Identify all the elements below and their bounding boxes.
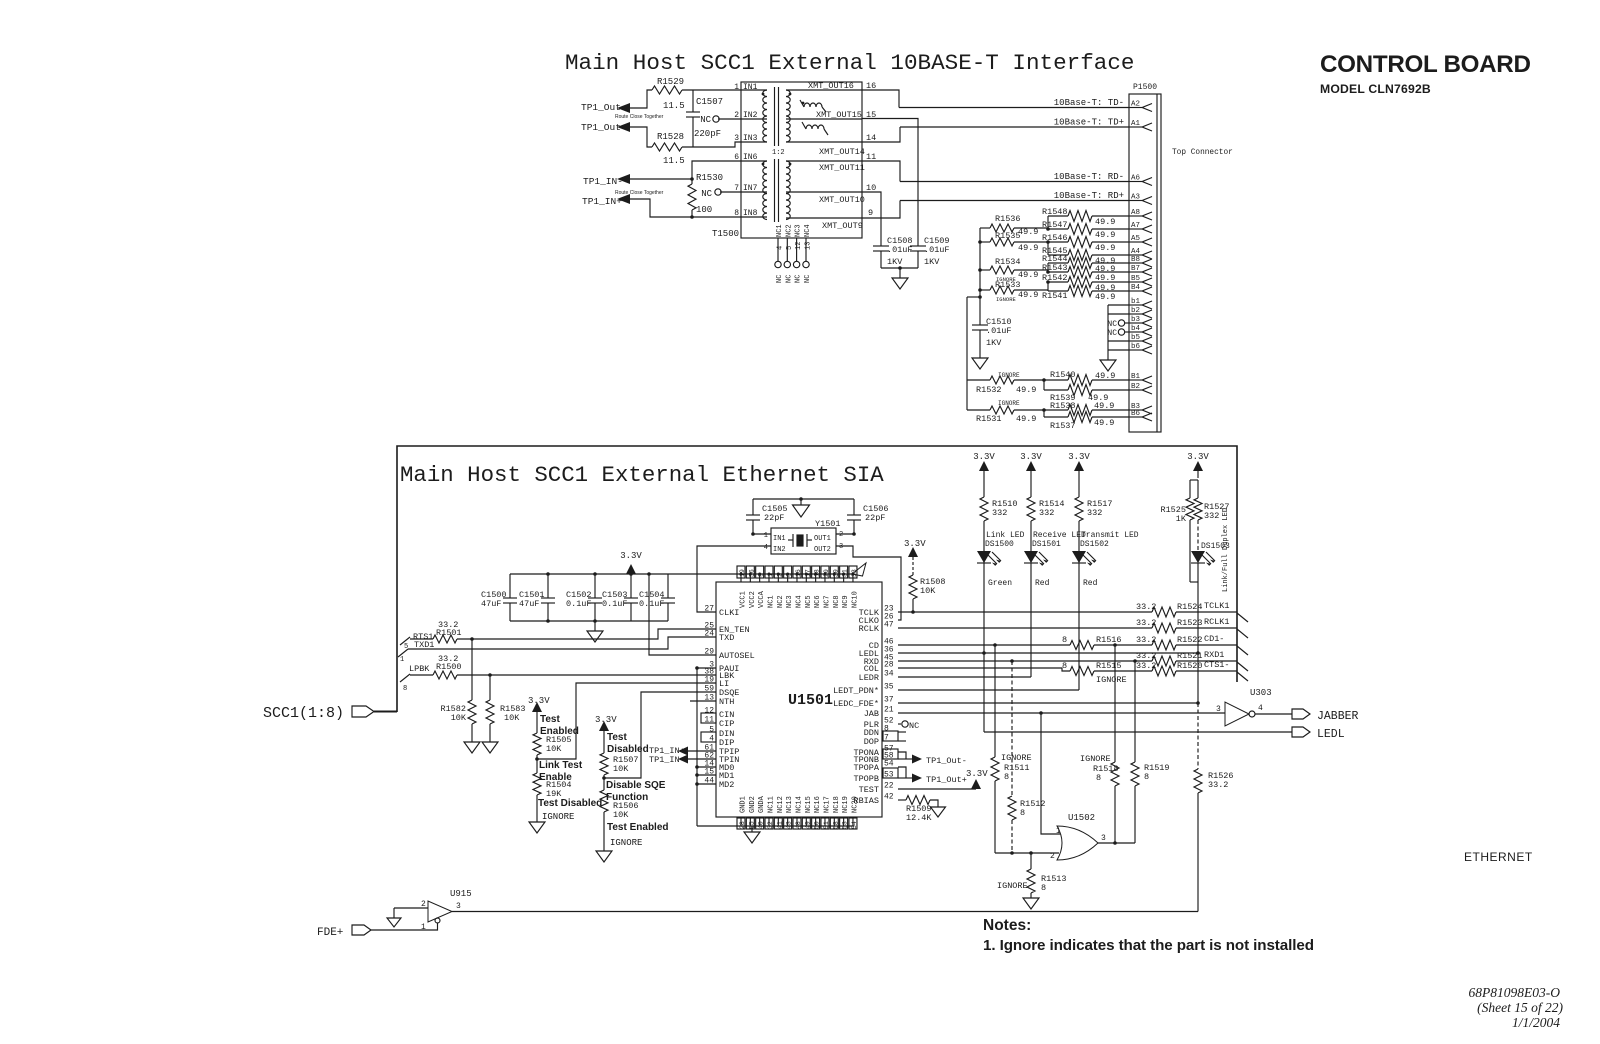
resistor R1522: [1152, 640, 1176, 650]
svg-text:Link Test: Link Test: [539, 760, 583, 771]
junction dot R1530 top: [690, 177, 694, 181]
U1501 bottom pin 43 NC13: [787, 817, 789, 826]
svg-text:3: 3: [456, 902, 461, 911]
junction dot LEDC_FDE/R1526: [1196, 701, 1200, 705]
svg-text:1: 1: [734, 83, 739, 92]
T1500 core lines lower: [774, 159, 776, 222]
svg-text:R1546: R1546: [1042, 233, 1068, 243]
svg-text:IGNORE: IGNORE: [998, 400, 1020, 407]
resistor R1508: [909, 575, 917, 599]
U1501 top pin 19 VCC1: [740, 574, 742, 582]
svg-text:Main Host SCC1 External Ethern: Main Host SCC1 External Ethernet SIA: [400, 462, 884, 488]
wire bracket A5/A4: [1047, 242, 1049, 255]
svg-text:NC10: NC10: [851, 591, 859, 608]
svg-text:28: 28: [739, 821, 746, 829]
svg-text:NC: NC: [1107, 329, 1117, 338]
svg-text:49.9: 49.9: [1018, 290, 1038, 300]
U1501 bottom pin 54 NC20: [852, 817, 854, 826]
wire 3.3V rail (top): [510, 573, 852, 575]
U1501 bottom pin 58 NC18: [833, 817, 835, 826]
svg-text:IN2: IN2: [773, 546, 786, 554]
svg-text:5: 5: [709, 726, 714, 735]
svg-text:1: 1: [1056, 827, 1061, 836]
wire R1548 to A8: [1092, 215, 1129, 217]
resistor R1527: [1194, 498, 1202, 520]
svg-text:TP1_IN-: TP1_IN-: [649, 755, 685, 765]
svg-text:NC20: NC20: [851, 796, 859, 813]
wire lower termination rail: [967, 296, 980, 298]
svg-text:R1501: R1501: [436, 628, 462, 638]
svg-text:3.3V: 3.3V: [1020, 452, 1042, 462]
resistor R1510: [980, 497, 988, 521]
svg-text:NC11: NC11: [767, 796, 775, 813]
junction dot B5 bracket: [1046, 280, 1050, 284]
wire R1543 to B7: [1092, 271, 1129, 273]
svg-text:3.3V: 3.3V: [595, 715, 617, 725]
svg-text:1KV: 1KV: [924, 257, 940, 267]
svg-text:C1507: C1507: [696, 97, 723, 107]
resistor R1547: [1048, 228, 1068, 230]
wire T1500 pin7 NC stub: [720, 191, 741, 193]
svg-text:SCC1(1:8): SCC1(1:8): [263, 705, 344, 722]
ground (R1583): [482, 742, 498, 753]
svg-text:NC12: NC12: [777, 796, 785, 813]
U1501 top pin 16 NC4: [796, 574, 798, 582]
ground (R1513): [1023, 898, 1039, 909]
ground (U1501): [751, 826, 753, 832]
wire OUT14 internal: [786, 141, 862, 143]
svg-text:(Sheet 15 of 22): (Sheet 15 of 22): [1477, 1000, 1563, 1015]
svg-text:U1501: U1501: [788, 692, 833, 709]
svg-text:R1547: R1547: [1042, 220, 1068, 230]
svg-text:Test Enabled: Test Enabled: [607, 822, 669, 833]
svg-text:8: 8: [734, 209, 739, 218]
svg-text:49.9: 49.9: [1095, 230, 1115, 240]
wire termination rail upper: [979, 228, 981, 325]
wire COL net: [898, 668, 1070, 671]
svg-text:33.2: 33.2: [1136, 618, 1156, 628]
svg-text:332: 332: [1039, 508, 1054, 518]
wire U1502 output: [1098, 842, 1135, 844]
svg-text:11.5: 11.5: [663, 156, 685, 166]
svg-text:3.3V: 3.3V: [973, 452, 995, 462]
svg-text:R1536: R1536: [995, 214, 1021, 224]
wire R1539 to B2: [1092, 389, 1129, 391]
capacitor C1504: [667, 574, 669, 598]
svg-text:3: 3: [1216, 705, 1221, 714]
svg-text:TP1_IN-: TP1_IN-: [583, 176, 623, 187]
svg-text:NC17: NC17: [823, 796, 831, 813]
wire T1500 pin9 to RD+ net: [862, 201, 900, 219]
svg-text:AUTOSEL: AUTOSEL: [719, 651, 755, 661]
resistor R1530: [691, 179, 693, 184]
wire OUT15 internal: [786, 118, 862, 120]
wire Y1501 OUT2 to CLKO: [836, 546, 901, 620]
svg-text:53: 53: [842, 821, 849, 829]
svg-text:R1548: R1548: [1042, 207, 1068, 217]
svg-text:54: 54: [884, 760, 894, 769]
wire TPOPB to TP1_Out+: [898, 777, 913, 779]
svg-text:NTH: NTH: [719, 697, 734, 707]
wire TXD1 to TXD: [408, 637, 716, 649]
wire link test enable to LI: [537, 683, 716, 759]
svg-text:4: 4: [764, 544, 768, 552]
wire DOP stub: [898, 740, 906, 742]
svg-text:R1535: R1535: [995, 231, 1021, 241]
junction dot R1530 bottom: [690, 215, 694, 219]
svg-text:NC7: NC7: [823, 595, 831, 608]
wire LEDL output run: [984, 731, 1292, 733]
resistor R1525: [1186, 498, 1194, 520]
junction dot R1518 bottom: [1113, 841, 1117, 845]
junction dot JAB/U1502: [1039, 711, 1043, 715]
svg-text:NC2: NC2: [777, 595, 785, 608]
wire R1528 to T1500 pin3: [682, 142, 741, 147]
gate U303 inverter: [1225, 702, 1249, 726]
svg-text:Test: Test: [540, 714, 560, 725]
svg-text:TXD: TXD: [719, 633, 734, 643]
svg-text:50: 50: [814, 821, 821, 829]
svg-text:42: 42: [884, 793, 894, 802]
U1501 bottom pin 40 GNDA: [759, 817, 761, 826]
U1501 top pin 6 NC3: [787, 574, 789, 582]
power 3.3V (bypass rail): [626, 564, 636, 574]
svg-text:DOP: DOP: [864, 737, 879, 747]
svg-text:NC: NC: [701, 189, 712, 199]
junction dot B1 bracket: [1042, 378, 1046, 382]
svg-text:NC15: NC15: [805, 796, 813, 813]
svg-text:U303: U303: [1250, 688, 1272, 698]
LED DS1503: [1191, 551, 1205, 563]
resistor R1515: [1070, 667, 1094, 676]
node TP1_Out+ arrow: [617, 122, 630, 132]
svg-text:1. Ignore indicates that the p: 1. Ignore indicates that the part is not…: [983, 937, 1314, 954]
wire R1500 to LBK: [457, 674, 716, 676]
wire R1529 to T1500 pin1: [682, 89, 741, 91]
capacitor C1508: [873, 245, 889, 247]
wire T1500 pin10 to C1508: [862, 192, 881, 246]
svg-text:34: 34: [884, 670, 894, 679]
T1500 link coil XMT_OUT14: [806, 125, 824, 129]
svg-text:Red: Red: [1083, 579, 1098, 588]
svg-text:IGNORE: IGNORE: [1080, 754, 1111, 764]
svg-text:TCLK1: TCLK1: [1204, 601, 1230, 611]
net RCLK1 exit tick: [1237, 629, 1248, 638]
wire bracket B3/B6: [1043, 410, 1045, 417]
svg-text:NC1: NC1: [776, 224, 784, 237]
ground (bypass rail): [594, 621, 596, 631]
wire crystal top rail: [753, 498, 854, 500]
svg-text:0.1uF: 0.1uF: [566, 599, 592, 609]
wire R1534 to bracket: [1014, 269, 1048, 271]
svg-text:35: 35: [884, 683, 894, 692]
wire AUTOSEL to 3.3V rail: [649, 574, 716, 655]
node TP1_Out- arrow (SIA): [912, 755, 922, 764]
wire DS1502 cathode down: [1078, 560, 1080, 690]
svg-text:3: 3: [1101, 834, 1106, 843]
svg-text:IN6: IN6: [743, 153, 758, 162]
resistor R1512: [1011, 661, 1013, 796]
svg-text:MD2: MD2: [719, 780, 734, 790]
svg-text:RCLK: RCLK: [859, 624, 880, 634]
wire NTH stub: [690, 700, 716, 702]
svg-text:1:2: 1:2: [772, 149, 785, 157]
junction dots U1501 left rail: [695, 666, 699, 670]
wire R1532 to bracket: [1014, 379, 1044, 381]
wire 10Base-T TD- net: [899, 107, 1129, 109]
svg-text:Route Close Together: Route Close Together: [615, 190, 664, 196]
wire IN1 internal: [741, 89, 767, 91]
U1501 bottom pin 49 NC15: [805, 817, 807, 826]
junction dot R1519/RXD: [1133, 659, 1137, 663]
wire R1508 to TCLK: [912, 599, 914, 612]
svg-text:3: 3: [734, 134, 739, 143]
wire LEDL net: [898, 652, 1198, 654]
svg-text:43: 43: [786, 821, 793, 829]
svg-text:33.2: 33.2: [1136, 651, 1156, 661]
wire TPOPA bracket: [898, 767, 906, 778]
U1501 bottom pin 50 NC16: [815, 817, 817, 826]
svg-text:33.2: 33.2: [1136, 635, 1156, 645]
svg-text:VCC2: VCC2: [749, 591, 757, 608]
svg-text:NC13: NC13: [786, 796, 794, 813]
wire R1540 to B1: [1092, 379, 1129, 381]
svg-text:NC: NC: [804, 275, 812, 283]
svg-text:LEDT_PDN*: LEDT_PDN*: [833, 686, 879, 696]
svg-text:NC19: NC19: [842, 796, 850, 813]
svg-text:NC: NC: [776, 275, 784, 283]
svg-text:8: 8: [1004, 772, 1009, 782]
wire R1546 to A5: [1092, 241, 1129, 243]
svg-text:59: 59: [704, 685, 714, 694]
T1500 link coil XMT_OUT15: [804, 103, 822, 107]
wire R1525/R1527 join bottom: [1190, 581, 1198, 583]
svg-text:IGNORE: IGNORE: [542, 812, 574, 822]
svg-text:NC6: NC6: [814, 595, 822, 608]
svg-text:3.3V: 3.3V: [1068, 452, 1090, 462]
wire OUT11 internal: [786, 160, 862, 162]
resistor R1511: [994, 645, 996, 757]
svg-text:48: 48: [795, 821, 802, 829]
capacitor C1501: [547, 574, 549, 598]
svg-text:TP1_IN+: TP1_IN+: [582, 196, 622, 207]
svg-text:U1502: U1502: [1068, 813, 1095, 823]
svg-text:CD1-: CD1-: [1204, 634, 1224, 644]
svg-text:51: 51: [823, 821, 830, 829]
svg-text:3.3V: 3.3V: [528, 696, 550, 706]
wire TP1_Out- to R1529: [630, 90, 652, 108]
svg-text:P1500: P1500: [1133, 83, 1157, 92]
svg-text:NC: NC: [785, 275, 793, 283]
svg-text:IN1: IN1: [743, 83, 758, 92]
svg-text:Route Close Together: Route Close Together: [615, 114, 664, 120]
wire 10Base-T RD+ net: [900, 200, 1129, 202]
svg-text:1/1/2004: 1/1/2004: [1512, 1015, 1560, 1030]
resistor R1544: [1048, 262, 1068, 264]
svg-text:XMT_OUT11: XMT_OUT11: [819, 163, 865, 173]
wire OUT9 internal: [786, 217, 862, 219]
svg-text:ETHERNET: ETHERNET: [1464, 850, 1533, 864]
wire OUT16 internal: [786, 89, 862, 91]
svg-text:NC9: NC9: [842, 595, 850, 608]
U1501 bottom pin 32 NC11: [768, 817, 770, 826]
wire R1537 to B6: [1092, 416, 1129, 418]
svg-text:8: 8: [1062, 635, 1067, 645]
LED DS1502: [1072, 551, 1086, 563]
svg-text:Green: Green: [988, 579, 1012, 588]
resistor R1541: [1068, 286, 1092, 297]
svg-text:R1500: R1500: [436, 662, 462, 672]
resistor R1582: [471, 639, 473, 700]
resistor R1524: [1152, 607, 1176, 617]
capacitor C1509: [910, 245, 926, 247]
svg-text:8: 8: [1096, 773, 1101, 783]
wire R1536 to bracket: [1014, 227, 1048, 229]
svg-text:47: 47: [884, 621, 894, 630]
junction dot A7 bracket: [1046, 227, 1050, 231]
svg-text:CLKI: CLKI: [719, 608, 739, 618]
wire R1531 to bracket: [1014, 409, 1044, 411]
svg-text:10Base-T: RD+: 10Base-T: RD+: [1054, 191, 1124, 201]
svg-text:9: 9: [868, 208, 873, 218]
U1501 top pin 30 NC8: [833, 574, 835, 582]
svg-text:NC1: NC1: [767, 595, 775, 608]
wire R1509 to ground: [930, 800, 938, 807]
svg-text:IGNORE: IGNORE: [610, 838, 642, 848]
svg-text:LEDL: LEDL: [1317, 728, 1345, 741]
svg-text:10Base-T: RD-: 10Base-T: RD-: [1054, 172, 1124, 182]
junction dot R1511/CD: [993, 643, 997, 647]
wire T1500 pin15 to C1509: [862, 119, 918, 247]
svg-text:8: 8: [403, 685, 407, 693]
svg-text:R1529: R1529: [657, 77, 684, 87]
svg-text:R1523: R1523: [1177, 618, 1203, 628]
svg-text:NC5: NC5: [805, 595, 813, 608]
resistor R1504: [533, 773, 541, 795]
wire DDN stub: [898, 731, 906, 733]
wire TEST to 3.3V: [898, 788, 976, 790]
resistor R1528: [652, 143, 682, 151]
svg-text:10K: 10K: [920, 586, 936, 596]
ground (R1509): [931, 807, 946, 817]
svg-text:49.9: 49.9: [1018, 243, 1038, 253]
svg-text:21: 21: [884, 706, 894, 715]
svg-text:49.9: 49.9: [1094, 418, 1114, 428]
resistor R1500: [410, 674, 433, 676]
bus tap RTS1: [400, 637, 410, 645]
svg-text:22: 22: [884, 782, 894, 791]
resistor R1520: [1152, 666, 1176, 676]
svg-text:NC: NC: [795, 275, 803, 283]
wire JAB to U1502 input1: [1041, 713, 1062, 834]
wire OUT10 internal: [786, 191, 862, 193]
wire rail NC arrow end: [852, 563, 866, 576]
svg-text:R1530: R1530: [696, 173, 723, 183]
svg-text:8: 8: [1020, 808, 1025, 818]
svg-text:R1521: R1521: [1177, 651, 1203, 661]
svg-text:XMT_OUT14: XMT_OUT14: [819, 147, 865, 157]
bus tap LPBK: [400, 674, 410, 682]
svg-text:IN2: IN2: [743, 111, 758, 120]
svg-text:TPOPB: TPOPB: [853, 774, 879, 784]
bus tap TXD1: [398, 649, 408, 657]
svg-text:Link LED: Link LED: [986, 531, 1025, 540]
svg-text:OUT1: OUT1: [814, 535, 831, 543]
net CTS1- exit tick: [1237, 672, 1248, 681]
svg-text:49.9: 49.9: [1016, 385, 1036, 395]
svg-text:49.9: 49.9: [1095, 217, 1115, 227]
wire RBIAS: [898, 799, 906, 801]
wire TP1_IN- to T1500 pin6: [630, 161, 741, 179]
resistor R1533: [980, 289, 990, 291]
svg-text:IGNORE: IGNORE: [997, 881, 1028, 891]
svg-text:IN1: IN1: [773, 535, 786, 543]
svg-text:IN7: IN7: [743, 184, 758, 193]
wire Y1501 IN2 to CLKI: [697, 546, 771, 612]
wire R1541 to B4: [1047, 290, 1049, 291]
svg-text:DS1500: DS1500: [985, 540, 1014, 549]
svg-text:OUT2: OUT2: [814, 546, 831, 554]
net CD1- exit tick: [1237, 646, 1248, 655]
svg-text:1KV: 1KV: [986, 338, 1002, 348]
wire R1517 to LED: [1078, 521, 1080, 551]
connector P1500 body: [1129, 94, 1161, 432]
resistor R1545: [1068, 250, 1092, 261]
svg-text:TPOPA: TPOPA: [853, 763, 879, 773]
node TP1_IN- arrow: [617, 174, 630, 184]
svg-text:49.9: 49.9: [1095, 292, 1115, 302]
svg-text:NC3: NC3: [795, 224, 803, 237]
U1501 bottom pin 48 NC14: [796, 817, 798, 826]
svg-text:CTS1-: CTS1-: [1204, 660, 1230, 670]
svg-text:10K: 10K: [504, 713, 520, 723]
svg-text:68P81098E03-O: 68P81098E03-O: [1469, 985, 1561, 1000]
U1501 top pin 18 NC6: [815, 574, 817, 582]
svg-text:NC8: NC8: [833, 595, 841, 608]
resistor R1531: [967, 409, 990, 411]
wire U1501 left GND rail: [696, 668, 698, 826]
wire bracket B8/B7: [1047, 263, 1049, 272]
wire U303 out to JABBER: [1255, 713, 1292, 715]
U1501 top pin 1 NC1: [768, 574, 770, 582]
svg-text:IN8: IN8: [743, 209, 758, 218]
resistor R1523: [1152, 623, 1176, 633]
svg-text:R1520: R1520: [1177, 661, 1203, 671]
svg-text:LEDC_FDE*: LEDC_FDE*: [833, 699, 879, 709]
junction dot R1582 top: [470, 637, 474, 641]
wire LEDT_PDN net: [898, 689, 1079, 691]
capacitor C1506: [847, 514, 861, 516]
svg-text:49.9: 49.9: [1095, 243, 1115, 253]
T1500 core lines upper: [774, 87, 776, 146]
wire DS1503 cathode down: [1197, 563, 1199, 703]
ground (b pins): [1100, 360, 1116, 371]
wire R1538 to B3: [1092, 409, 1129, 411]
svg-text:33.2: 33.2: [1208, 780, 1228, 790]
capacitor C1503: [630, 574, 632, 598]
resistor R1534: [980, 269, 990, 271]
wire disable SQE to DSQE: [604, 692, 716, 778]
svg-text:XMT_OUT15: XMT_OUT15: [816, 110, 862, 120]
wire cap common rail: [881, 267, 918, 269]
svg-text:R1524: R1524: [1177, 602, 1203, 612]
svg-text:RXD1: RXD1: [1204, 650, 1224, 660]
svg-text:3.3V: 3.3V: [904, 539, 926, 549]
svg-text:4: 4: [1258, 704, 1263, 713]
svg-text:GNDA: GNDA: [758, 795, 766, 813]
resistor R1521: [1152, 656, 1176, 666]
svg-text:33.2: 33.2: [1136, 602, 1156, 612]
